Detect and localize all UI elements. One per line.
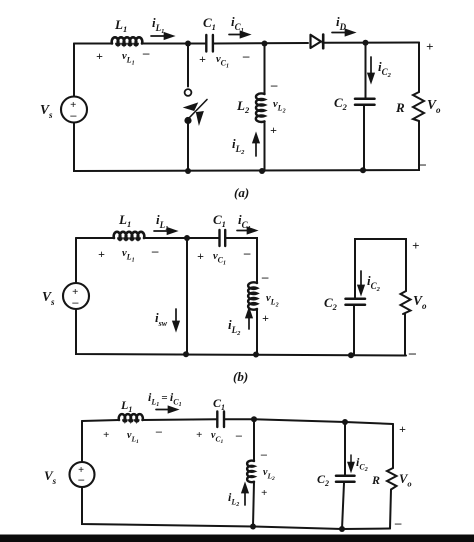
wire: C top rail C1 to node (224, 418, 254, 420)
svg-text:–: – (142, 45, 150, 60)
switch lever (a) (189, 100, 207, 119)
svg-text:–: – (70, 108, 77, 122)
wire: A C2 bottom (363, 106, 365, 170)
wire: B right vertical bottom (404, 314, 406, 356)
svg-text:Vs: Vs (42, 289, 55, 307)
node C L2-top (251, 416, 257, 422)
node B sw-top (184, 235, 190, 241)
svg-text:Vs: Vs (40, 102, 53, 120)
svg-text:vL2: vL2 (266, 293, 279, 309)
capacitor C2 branch top (c) (344, 422, 346, 475)
wire: C left vertical above Vs (81, 421, 83, 462)
svg-text:vC1: vC1 (213, 251, 226, 267)
svg-text:iC2: iC2 (356, 455, 368, 473)
resistor R (a) (413, 90, 424, 121)
wire: A right vertical top (418, 43, 420, 91)
svg-text:iL1 = iC1: iL1 = iC1 (148, 390, 182, 408)
svg-text:L1: L1 (118, 212, 131, 229)
svg-text:–: – (261, 269, 269, 284)
current arrow i_L2 (c) (242, 484, 248, 505)
current arrow i_C2 (b) (358, 271, 364, 294)
wire: A left vertical above Vs (73, 44, 75, 97)
svg-text:C1: C1 (213, 396, 225, 412)
source Vs (c) (70, 462, 95, 487)
node A L2-bottom (259, 168, 265, 174)
wire: C left below Vs + bottom rail (82, 487, 390, 529)
svg-text:C2: C2 (317, 472, 329, 488)
current arrow i_C2 (a) (368, 57, 374, 82)
svg-text:–: – (394, 515, 402, 530)
svg-text:–: – (418, 157, 426, 172)
svg-text:vC1: vC1 (216, 54, 229, 70)
current arrow i_C1 (a) (229, 32, 249, 38)
inductor L1 (b) (114, 232, 145, 238)
wire: C top rail L1 to C1 (142, 418, 217, 421)
inductor L2 (a) (256, 93, 265, 122)
svg-text:–: – (408, 346, 416, 361)
bottom black bar (0, 535, 474, 542)
svg-text:iL1: iL1 (156, 212, 168, 232)
node A C2-top (363, 40, 369, 46)
wire: B left vertical above Vs (75, 238, 77, 283)
wire: B top rail C1 to L2 corner (226, 238, 257, 283)
current arrow i_C1 (b) (237, 228, 256, 234)
svg-text:+: + (199, 52, 206, 66)
resistor R (c) (387, 468, 397, 490)
svg-text:C2: C2 (334, 95, 348, 112)
capacitor C2 (a) (355, 99, 375, 105)
switch arrowhead left (a) (184, 103, 198, 111)
svg-text:L1: L1 (114, 17, 127, 34)
capacitor C2 (c) (336, 476, 355, 482)
wire: A left vertical below Vs (74, 121, 419, 171)
svg-text:vL1: vL1 (122, 51, 135, 67)
svg-text:–: – (260, 447, 267, 461)
resistor R (b) (401, 289, 411, 314)
wire: B left vertical below Vs + bottom rail (76, 309, 406, 356)
wire: A L2 bottom (264, 122, 266, 172)
switch open contact circle (a) (185, 89, 192, 96)
current arrow i_L2 (a) (253, 134, 259, 156)
svg-text:+: + (197, 249, 204, 263)
wire: A top rail diode to right (323, 42, 420, 44)
svg-text:iD: iD (336, 14, 347, 32)
switch branch wire (b) (186, 238, 188, 354)
current arrow i_sw (b) (173, 309, 179, 330)
capacitor C2 (b) (346, 299, 366, 305)
svg-text:+: + (96, 49, 103, 63)
inductor L2 branch wire top (a) (264, 44, 266, 95)
node C L2-bottom (250, 524, 256, 530)
diode D (a) (311, 35, 322, 48)
svg-text:Vs: Vs (44, 468, 57, 486)
svg-text:R: R (371, 473, 380, 487)
svg-text:–: – (72, 295, 79, 309)
inductor L1 (c) (119, 414, 143, 420)
svg-text:Vo: Vo (399, 472, 412, 489)
node B L2-bottom (253, 352, 259, 358)
svg-text:iC2: iC2 (367, 273, 381, 293)
node A C2-bottom (360, 167, 366, 173)
current arrow i_C2 (c) (348, 455, 354, 471)
inductor L2 (b) (248, 282, 257, 309)
source Vs (a) (61, 97, 87, 123)
svg-text:+: + (98, 247, 105, 261)
capacitor C1 (b) (220, 230, 226, 246)
svg-text:+: + (412, 238, 419, 253)
svg-text:–: – (151, 243, 159, 258)
source Vs (b) (63, 283, 89, 309)
wire: A top rail left segment (74, 43, 112, 45)
wire: B top rail left (76, 237, 114, 239)
capacitor C1 (a) (206, 35, 213, 52)
svg-text:–: – (155, 424, 162, 438)
switch branch wire top (a) (187, 44, 189, 87)
current arrow i_L1 (b) (154, 228, 176, 234)
node C C2-bottom (339, 526, 345, 532)
svg-text:isw: isw (155, 310, 168, 328)
svg-text:Vo: Vo (427, 97, 441, 115)
svg-text:Vo: Vo (413, 293, 427, 311)
svg-text:–: – (235, 428, 242, 442)
capacitor C1 (c) (217, 412, 224, 428)
switch hinge dot (a) (184, 117, 191, 124)
wire: C top rail to right corner (345, 422, 393, 424)
svg-text:+: + (103, 429, 109, 441)
node A sw-bottom (185, 168, 191, 174)
wire: B C2 bottom (353, 306, 355, 355)
node A sw-top (185, 41, 191, 47)
node B sw-bottom (183, 351, 189, 357)
svg-text:–: – (270, 77, 278, 92)
svg-text:iL2: iL2 (228, 490, 239, 508)
inductor L2 branch top (c) (253, 419, 255, 461)
inductor L1 under-loops (c) (123, 420, 139, 422)
svg-text:+: + (261, 487, 267, 499)
switch arrowhead down (a) (196, 112, 203, 125)
current arrow i_L1=i_C1 (c) (156, 407, 177, 413)
wire: C top rail node to C2 node (254, 419, 345, 422)
svg-text:(b): (b) (233, 369, 248, 384)
node A L2-top (262, 41, 268, 47)
wire: C C2 bottom (342, 483, 344, 529)
svg-text:iL1: iL1 (152, 15, 164, 35)
wire: B L2 bottom (256, 309, 258, 355)
inductor L1 (a) (112, 37, 143, 43)
inductor L1 under-loops (a) (116, 44, 138, 46)
svg-text:L1: L1 (120, 398, 132, 414)
svg-text:L2: L2 (236, 98, 250, 115)
current arrow i_L2 (b) (246, 309, 252, 329)
wire: B C2 loop left top (355, 239, 406, 298)
svg-text:vC1: vC1 (211, 430, 223, 445)
current arrow i_L1 (a) (151, 33, 173, 39)
svg-text:+: + (426, 39, 433, 54)
svg-text:iC2: iC2 (378, 59, 392, 79)
svg-text:R: R (395, 100, 405, 115)
svg-text:–: – (78, 474, 85, 486)
wire: C right vertical top (392, 424, 394, 468)
wire: C L2 bottom (253, 482, 254, 527)
svg-text:+: + (196, 429, 202, 441)
current arrow i_D (a) (332, 30, 354, 36)
node B C2-bottom (348, 352, 354, 358)
wire: A top rail C1 to diode (214, 42, 309, 45)
capacitor C2 branch top wire (a) (365, 43, 367, 98)
svg-text:iC1: iC1 (231, 14, 244, 34)
svg-text:–: – (243, 245, 251, 260)
switch branch wire bottom (a) (187, 121, 189, 171)
svg-text:C1: C1 (203, 15, 216, 32)
wire: C top rail left (82, 420, 119, 421)
svg-text:vL2: vL2 (273, 99, 286, 115)
svg-text:iL2: iL2 (232, 136, 245, 156)
svg-text:+: + (262, 311, 269, 325)
svg-text:+: + (270, 123, 277, 137)
svg-text:vL1: vL1 (122, 248, 135, 264)
svg-text:iC1: iC1 (238, 212, 251, 232)
svg-text:C2: C2 (324, 295, 338, 312)
wire: C right vertical bottom (390, 490, 391, 529)
wire: A top rail L1 to C1 (142, 43, 206, 45)
inductor L2 (c) (247, 461, 254, 483)
inductor L1 under-loops (b) (118, 238, 140, 240)
svg-text:vL2: vL2 (263, 467, 275, 482)
svg-text:vL1: vL1 (127, 430, 139, 445)
node C C2-top (342, 419, 348, 425)
svg-text:C1: C1 (213, 212, 226, 229)
svg-text:(a): (a) (234, 185, 249, 200)
wire: B top rail L1 to C1 (144, 237, 219, 239)
svg-text:iL2: iL2 (228, 317, 241, 337)
svg-text:–: – (242, 48, 250, 63)
svg-text:+: + (399, 422, 406, 436)
